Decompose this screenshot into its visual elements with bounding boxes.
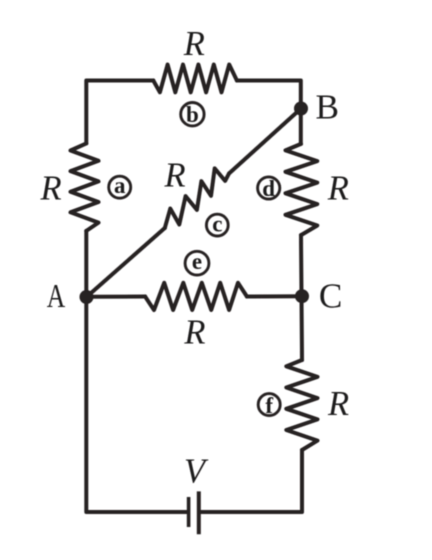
wire bottom left <box>86 231 187 512</box>
svg-text:R: R <box>183 314 205 352</box>
svg-text:C: C <box>319 276 342 315</box>
wire bottom right <box>201 450 302 512</box>
wire middle A to resistor e <box>87 295 146 299</box>
svg-text:c: c <box>212 212 222 237</box>
resistor R c (diagonal) <box>165 168 229 228</box>
resistor R b (top) <box>153 65 237 93</box>
wire diagonal resistor c to node B <box>229 109 301 174</box>
node B junction dot <box>294 102 308 116</box>
wire from resistor d to node C and below <box>301 235 302 360</box>
label circle f <box>258 393 280 418</box>
resistor R a (left) <box>71 143 99 231</box>
label circle a <box>109 173 131 198</box>
label circle b <box>181 102 204 127</box>
svg-text:b: b <box>186 102 199 127</box>
svg-text:f: f <box>265 393 273 418</box>
wire top horizontal <box>86 81 153 144</box>
label circle d <box>258 176 280 201</box>
svg-text:e: e <box>192 249 202 274</box>
svg-text:a: a <box>114 173 126 198</box>
svg-text:A: A <box>47 278 66 315</box>
resistor R f (right lower) <box>286 360 317 450</box>
wire top right corner down to node B <box>237 81 301 144</box>
wire diagonal A to resistor c <box>87 228 165 297</box>
label circle e <box>185 249 209 275</box>
node A junction dot <box>80 290 94 304</box>
svg-text:R: R <box>183 25 205 63</box>
svg-text:R: R <box>327 170 349 208</box>
battery V plates <box>189 491 199 534</box>
resistor R d (right upper) <box>286 144 318 235</box>
label circle c <box>206 212 228 237</box>
resistor R e (middle horizontal) <box>145 283 247 310</box>
svg-text:B: B <box>316 88 339 127</box>
wire resistor e to node C <box>247 294 302 298</box>
svg-text:d: d <box>262 176 275 201</box>
node C junction dot <box>295 289 309 303</box>
svg-text:R: R <box>327 385 349 423</box>
svg-text:R: R <box>164 156 186 194</box>
svg-text:V: V <box>184 453 209 491</box>
svg-text:R: R <box>39 170 61 208</box>
